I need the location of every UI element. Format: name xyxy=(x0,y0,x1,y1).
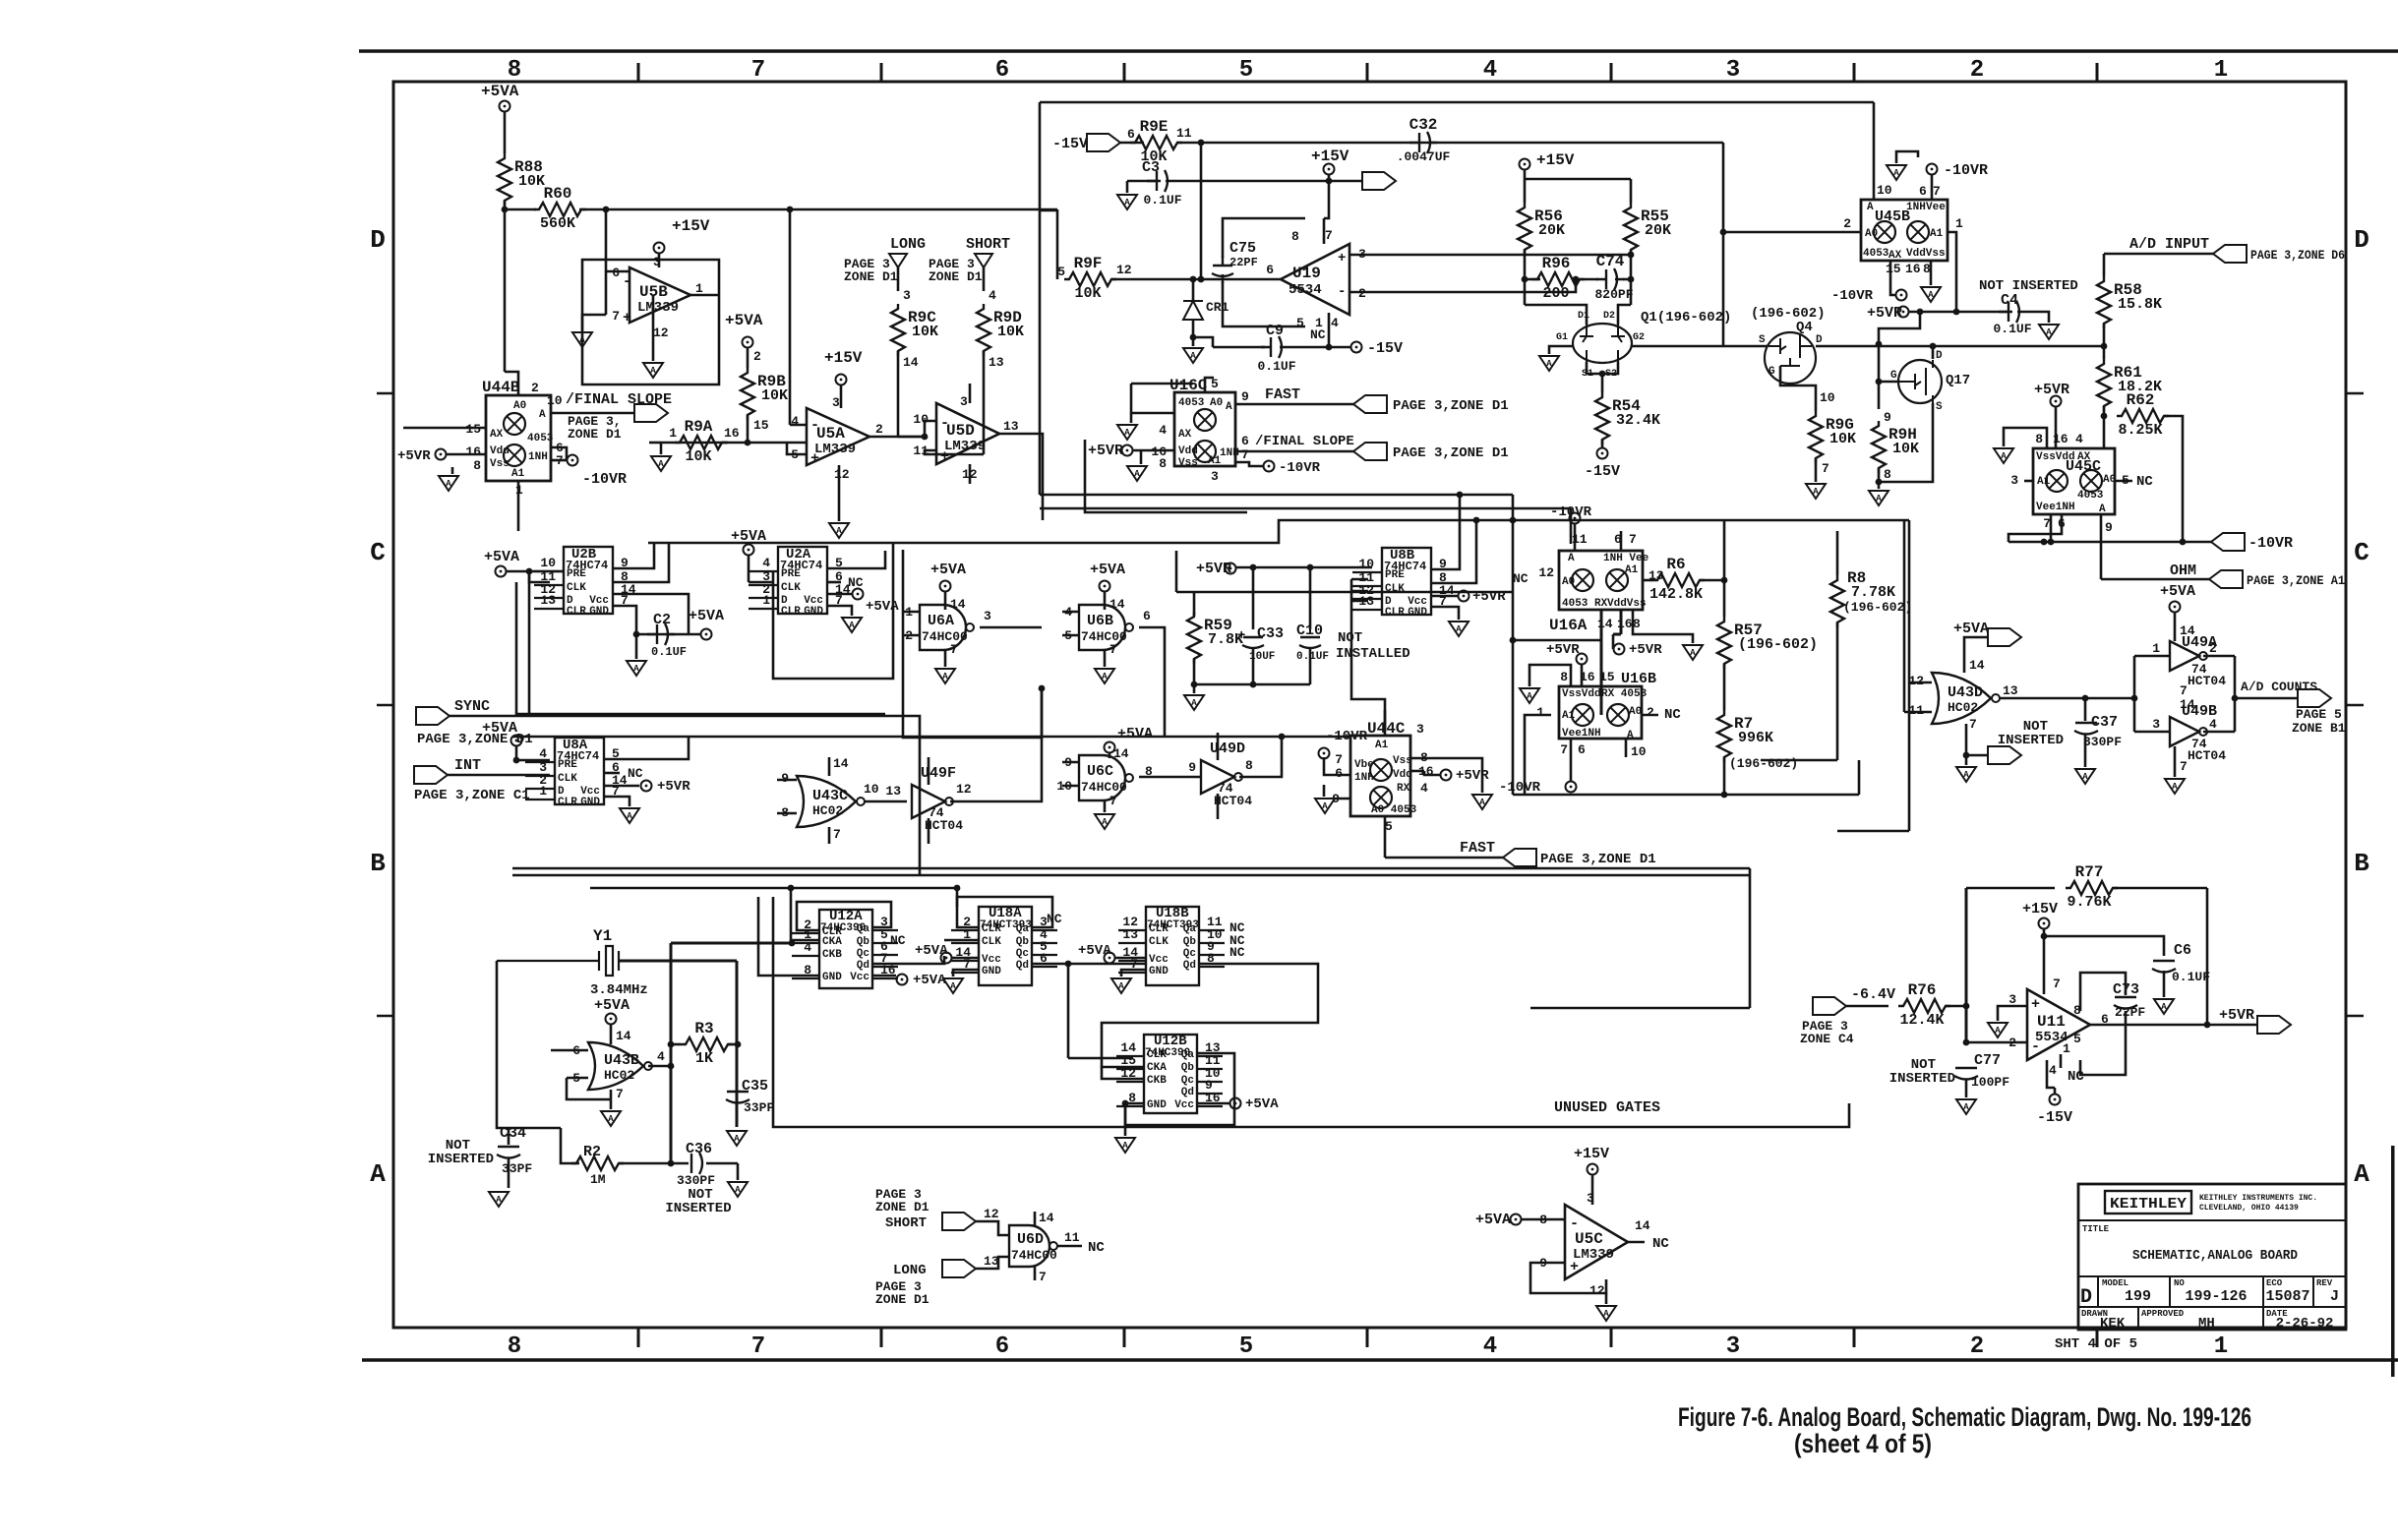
svg-text:HCT04: HCT04 xyxy=(1214,794,1252,808)
wire xyxy=(451,467,454,474)
svg-text:A: A xyxy=(1479,798,1485,807)
wire trunk xyxy=(512,736,1350,739)
junction xyxy=(2101,413,2108,420)
svg-text:CLEVELAND, OHIO 44139: CLEVELAND, OHIO 44139 xyxy=(2199,1204,2299,1213)
terminal +5VA xyxy=(897,975,908,985)
svg-text:U43C: U43C xyxy=(812,788,848,804)
svg-text:3: 3 xyxy=(2152,717,2160,732)
svg-text:4053: 4053 xyxy=(1863,248,1889,260)
wire xyxy=(1410,770,1424,773)
terminal +5VA xyxy=(2170,602,2181,613)
wire in1 xyxy=(903,611,920,614)
wire xyxy=(1836,531,1839,575)
wire xyxy=(605,209,608,271)
svg-text:16: 16 xyxy=(465,444,481,459)
wire xyxy=(2207,1024,2257,1027)
wire top trunk xyxy=(1040,101,1874,104)
wire in10 xyxy=(1062,785,1079,788)
wire xyxy=(671,1043,681,1046)
svg-text:6: 6 xyxy=(1919,184,1927,199)
wire xyxy=(610,1025,613,1044)
wire xyxy=(619,1162,689,1165)
svg-text:12: 12 xyxy=(984,1207,999,1221)
svg-text:CKA: CKA xyxy=(1147,1062,1167,1074)
svg-text:U6A: U6A xyxy=(928,613,954,629)
wire xyxy=(1878,468,1881,489)
svg-text:+5VR: +5VR xyxy=(1546,642,1580,658)
wire xyxy=(1174,180,1362,183)
svg-text:4: 4 xyxy=(539,746,547,761)
wire step xyxy=(1351,579,1385,728)
svg-text:+15V: +15V xyxy=(2022,901,2058,918)
wire xyxy=(670,960,673,963)
connector flag xyxy=(942,1260,976,1277)
svg-text:C74: C74 xyxy=(1596,253,1625,270)
svg-text:9: 9 xyxy=(781,771,789,786)
terminal -10VR xyxy=(1264,461,1275,472)
inverter U49A xyxy=(2170,641,2199,671)
svg-text:100PF: 100PF xyxy=(1971,1075,2009,1090)
svg-text:5: 5 xyxy=(1239,1333,1253,1360)
wire xyxy=(1512,495,1515,640)
svg-text:A0 4053: A0 4053 xyxy=(1371,804,1417,816)
wire xyxy=(1570,508,1573,544)
wire xyxy=(790,888,793,943)
junction xyxy=(502,207,509,213)
svg-text:Vss: Vss xyxy=(1393,755,1412,767)
svg-text:3: 3 xyxy=(1726,1333,1740,1360)
svg-text:KEITHLEY: KEITHLEY xyxy=(2110,1196,2187,1213)
connector flag xyxy=(2213,245,2247,263)
svg-text:R60: R60 xyxy=(544,185,572,203)
resistor R9D xyxy=(977,304,990,356)
cap C77 sym xyxy=(1954,1068,1978,1080)
ground xyxy=(1117,195,1137,209)
svg-text:12: 12 xyxy=(956,782,972,797)
wire Q17 S xyxy=(1879,403,1933,482)
svg-text:+5VA: +5VA xyxy=(1475,1212,1511,1228)
svg-text:10K: 10K xyxy=(1074,285,1101,302)
svg-text:CLR: CLR xyxy=(558,797,577,808)
junction xyxy=(603,207,610,213)
wire xyxy=(1192,320,1195,346)
svg-text:+5VR: +5VR xyxy=(2034,382,2069,398)
svg-text:PAGE 3,ZONE D1: PAGE 3,ZONE D1 xyxy=(1393,398,1509,414)
junction xyxy=(1122,1100,1129,1107)
wire xyxy=(1623,278,1631,281)
terminal +15V xyxy=(2039,918,2050,929)
connector flag xyxy=(1353,443,1387,460)
analog switch U44B xyxy=(486,395,551,481)
svg-text:4: 4 xyxy=(762,556,770,570)
terminal +5VR xyxy=(1577,654,1588,665)
wire xyxy=(976,1221,1009,1235)
terminal +5VR xyxy=(1459,591,1469,602)
wire xyxy=(1930,261,1933,285)
wire p2 xyxy=(1642,714,1658,717)
svg-text:-: - xyxy=(940,415,949,432)
wire fb xyxy=(1530,1263,1606,1293)
svg-text:(196-602): (196-602) xyxy=(1843,600,1912,615)
wire xyxy=(2043,929,2046,994)
wire xyxy=(551,447,567,460)
wire xyxy=(1896,151,1918,163)
svg-text:B: B xyxy=(370,849,386,878)
svg-text:PAGE 3,ZONE D1: PAGE 3,ZONE D1 xyxy=(1540,852,1656,867)
wire gate xyxy=(1879,381,1898,384)
wire xyxy=(1965,1080,1968,1097)
svg-text:9.76K: 9.76K xyxy=(2067,894,2111,911)
svg-text:PRE: PRE xyxy=(567,568,586,580)
terminal +5VR xyxy=(1226,563,1236,574)
svg-text:8: 8 xyxy=(1245,758,1253,773)
wire xyxy=(983,267,986,291)
wire vss xyxy=(1410,758,1482,793)
svg-text:CLK: CLK xyxy=(781,582,801,594)
wire xyxy=(1034,1267,1037,1280)
svg-text:-15V: -15V xyxy=(1367,340,1403,357)
border frame xyxy=(359,49,2398,53)
junction xyxy=(668,1160,675,1167)
svg-text:7: 7 xyxy=(2053,977,2061,991)
svg-text:A: A xyxy=(1603,1309,1609,1319)
ground xyxy=(1539,356,1559,371)
svg-text:C: C xyxy=(2354,538,2369,567)
wire xyxy=(579,208,1057,211)
wire R60 net xyxy=(505,208,536,211)
svg-text:32.4K: 32.4K xyxy=(1616,412,1660,429)
svg-text:6: 6 xyxy=(1578,742,1586,757)
wire p9 xyxy=(1333,798,1350,800)
svg-text:-15V: -15V xyxy=(2037,1109,2072,1126)
ground xyxy=(489,1192,509,1207)
svg-text:7: 7 xyxy=(1241,447,1249,462)
wire xyxy=(952,957,979,960)
svg-text:NO: NO xyxy=(2174,1278,2185,1288)
svg-text:+5VA: +5VA xyxy=(913,973,946,988)
svg-text:GND: GND xyxy=(589,606,609,618)
svg-text:7: 7 xyxy=(2180,759,2188,774)
wire xyxy=(1104,800,1107,812)
svg-text:RX 4053: RX 4053 xyxy=(1601,688,1648,700)
svg-text:A0: A0 xyxy=(1865,228,1878,240)
wire xyxy=(660,443,663,454)
wire xyxy=(898,436,925,439)
svg-text:22PF: 22PF xyxy=(2115,1005,2145,1020)
svg-text:R96: R96 xyxy=(1542,255,1571,272)
wire trunk xyxy=(512,874,1750,877)
connector flag xyxy=(2211,533,2245,551)
svg-text:R77: R77 xyxy=(2075,863,2104,881)
wire q2 xyxy=(613,543,669,582)
wire in1 xyxy=(2134,655,2170,658)
svg-text:A: A xyxy=(446,479,451,489)
svg-text:A: A xyxy=(1893,168,1899,178)
svg-text:74HC00: 74HC00 xyxy=(1081,780,1127,795)
svg-text:1: 1 xyxy=(762,593,770,608)
svg-text:10K: 10K xyxy=(761,387,788,404)
wire xyxy=(2055,407,2058,448)
wire xyxy=(605,271,608,315)
wire xyxy=(636,633,700,636)
wire xyxy=(606,270,629,273)
wire xyxy=(652,295,655,361)
wire xyxy=(2174,746,2177,777)
svg-text:5: 5 xyxy=(1057,265,1065,279)
terminal +5VA xyxy=(941,953,952,964)
svg-text:HCT04: HCT04 xyxy=(2188,674,2226,688)
svg-text:14: 14 xyxy=(1597,617,1613,631)
cap C73 sym xyxy=(2114,997,2137,1009)
svg-text:A: A xyxy=(2354,1159,2369,1189)
svg-text:8: 8 xyxy=(1159,456,1167,471)
svg-text:A: A xyxy=(1867,202,1874,213)
junction xyxy=(2048,539,2055,546)
wire xyxy=(1525,178,1631,181)
svg-text:CLR: CLR xyxy=(982,923,1001,935)
svg-text:4053: 4053 xyxy=(1178,397,1205,409)
svg-text:8: 8 xyxy=(1291,229,1299,244)
wire xyxy=(1700,579,1724,582)
wire xyxy=(747,348,749,368)
svg-text:1NH: 1NH xyxy=(1906,202,1926,213)
svg-text:Qc: Qc xyxy=(1016,948,1029,960)
svg-text:CLK: CLK xyxy=(567,582,586,594)
wire xyxy=(1133,449,1174,452)
junction xyxy=(787,207,794,213)
svg-text:+5VR: +5VR xyxy=(2219,1007,2254,1024)
svg-text:NC: NC xyxy=(1652,1236,1669,1252)
wire out xyxy=(1139,776,1200,779)
svg-text:8: 8 xyxy=(508,57,521,84)
wire q8 xyxy=(1431,520,1476,583)
svg-text:1: 1 xyxy=(2214,1333,2228,1360)
wire xyxy=(1909,311,2012,314)
svg-text:A: A xyxy=(1456,624,1462,634)
wire in3 xyxy=(2134,731,2170,734)
resistor R9G xyxy=(1809,411,1823,463)
junction xyxy=(1510,517,1517,524)
switch element xyxy=(1910,224,1926,240)
svg-text:4: 4 xyxy=(989,288,996,303)
junction xyxy=(1326,178,1333,185)
svg-text:A: A xyxy=(1568,553,1575,564)
wire xyxy=(1056,209,1059,279)
switch element xyxy=(2083,473,2099,489)
wire xyxy=(1524,179,1527,203)
resistor R9C xyxy=(891,304,905,356)
svg-text:APPROVED: APPROVED xyxy=(2141,1309,2185,1319)
svg-text:G2: G2 xyxy=(1633,332,1645,343)
ground xyxy=(1315,799,1335,813)
svg-text:Vee: Vee xyxy=(1926,202,1946,213)
cap C37 sym xyxy=(2074,723,2098,735)
wire cka loop xyxy=(1133,1066,1144,1069)
svg-text:6: 6 xyxy=(1266,263,1274,277)
svg-text:A1: A1 xyxy=(511,468,525,480)
svg-text:3: 3 xyxy=(2010,473,2018,488)
wire xyxy=(2103,406,2106,416)
svg-text:-: - xyxy=(623,273,631,290)
resistor R96 xyxy=(1532,272,1585,286)
counter U12B xyxy=(1144,1035,1197,1113)
wire xyxy=(1236,566,1372,569)
wire xyxy=(1252,567,1255,629)
terminal +5VA xyxy=(701,629,712,640)
wire xyxy=(1581,665,1584,686)
terminal +5VA xyxy=(496,566,507,577)
wire gnd xyxy=(953,970,979,977)
svg-text:NC: NC xyxy=(848,575,864,590)
svg-text:-10VR: -10VR xyxy=(2248,535,2293,552)
svg-text:Qa: Qa xyxy=(1183,923,1197,935)
wire xyxy=(1217,794,1220,819)
wire xyxy=(604,772,620,775)
svg-text:AX: AX xyxy=(490,429,504,441)
svg-text:8: 8 xyxy=(1560,670,1568,684)
svg-text:A: A xyxy=(1124,198,1130,207)
svg-text:7: 7 xyxy=(1822,461,1829,476)
svg-text:A: A xyxy=(496,1195,502,1205)
wire xyxy=(1749,868,1752,1008)
svg-text:CKB: CKB xyxy=(1147,1075,1167,1087)
svg-text:-10VR: -10VR xyxy=(1550,504,1592,520)
wire xyxy=(789,209,792,425)
wire U19 pin4 xyxy=(1328,313,1331,347)
svg-text:7: 7 xyxy=(1560,742,1568,757)
svg-text:HC02: HC02 xyxy=(1948,700,1978,715)
svg-text:A: A xyxy=(2099,503,2106,515)
wire in6 xyxy=(551,1049,588,1052)
wire FAST xyxy=(1235,403,1353,406)
wire xyxy=(728,1043,738,1046)
svg-text:9: 9 xyxy=(1241,389,1249,404)
svg-text:NC: NC xyxy=(1047,912,1062,926)
svg-text:NOT: NOT xyxy=(1338,630,1362,646)
wire xyxy=(1124,1103,1127,1136)
svg-text:Qb: Qb xyxy=(1016,936,1030,948)
svg-text:A0: A0 xyxy=(2103,474,2116,486)
junction xyxy=(735,1041,742,1048)
svg-text:NC: NC xyxy=(1088,1240,1105,1256)
wire trunk xyxy=(648,520,1909,543)
svg-text:A1: A1 xyxy=(1562,710,1576,722)
svg-text:10: 10 xyxy=(1820,390,1835,405)
connector flag xyxy=(1503,849,1536,866)
capacitor C4 xyxy=(1999,301,2026,323)
svg-text:GND: GND xyxy=(982,966,1001,977)
cap C10 sym xyxy=(1299,637,1321,648)
svg-text:C9: C9 xyxy=(1266,323,1284,339)
wire xyxy=(1878,344,1881,382)
wire in9 xyxy=(1062,761,1079,764)
svg-text:13: 13 xyxy=(2003,683,2018,698)
svg-text:SHT 4 OF 5: SHT 4 OF 5 xyxy=(2055,1336,2137,1352)
ground xyxy=(728,1182,748,1197)
junction xyxy=(1279,734,1286,740)
svg-text:SYNC: SYNC xyxy=(454,698,490,715)
wire c6 path xyxy=(2044,936,2164,956)
svg-text:R9A: R9A xyxy=(685,418,713,436)
svg-text:A: A xyxy=(1102,817,1108,827)
svg-text:/FINAL SLOPE: /FINAL SLOPE xyxy=(1255,434,1354,449)
wire xyxy=(1193,684,1196,693)
svg-text:11: 11 xyxy=(1176,126,1192,141)
svg-text:CLR: CLR xyxy=(781,606,801,618)
svg-text:A: A xyxy=(1627,730,1634,741)
svg-text:0.1UF: 0.1UF xyxy=(2172,970,2210,984)
svg-text:6: 6 xyxy=(1143,609,1151,623)
svg-text:D2: D2 xyxy=(1603,311,1615,322)
wire Q4 gate xyxy=(1780,366,1816,391)
wire in2 xyxy=(1062,634,1079,637)
svg-text:74HC00: 74HC00 xyxy=(922,629,968,644)
wire xyxy=(1574,523,1577,551)
terminal -10VR xyxy=(1570,513,1581,524)
wire xyxy=(2054,1088,2057,1094)
svg-text:Qc: Qc xyxy=(1183,948,1196,960)
svg-text:11: 11 xyxy=(1064,1230,1080,1245)
svg-text:15087: 15087 xyxy=(2265,1288,2309,1305)
connector flag INT xyxy=(414,766,448,784)
connector flag LONG xyxy=(889,254,907,267)
wire A out xyxy=(551,412,634,415)
svg-text:PAGE 3,ZONE D1: PAGE 3,ZONE D1 xyxy=(1393,445,1509,461)
switch element xyxy=(1575,707,1590,723)
svg-text:+15V: +15V xyxy=(1536,151,1575,169)
ground xyxy=(1184,695,1204,710)
cap C36 sym xyxy=(691,1153,702,1174)
svg-text:A: A xyxy=(942,672,948,681)
wire out xyxy=(2090,1024,2207,1027)
junction xyxy=(1953,309,1960,316)
svg-text:Vcc: Vcc xyxy=(982,954,1001,966)
svg-text:/FINAL SLOPE: /FINAL SLOPE xyxy=(566,391,672,408)
terminal +5VR xyxy=(1898,307,1909,318)
wire xyxy=(1524,250,1527,279)
wire xyxy=(1723,231,1861,234)
transistor Q17 xyxy=(1898,360,1942,403)
wire xyxy=(1130,384,1133,413)
ground xyxy=(1921,287,1941,302)
svg-text:0.1UF: 0.1UF xyxy=(1296,651,1329,663)
terminal +5VA xyxy=(1105,742,1115,753)
wire top xyxy=(1964,637,1988,673)
wire vcc xyxy=(827,593,852,596)
svg-text:NC: NC xyxy=(628,766,643,781)
svg-text:+5VR: +5VR xyxy=(1456,768,1489,784)
wire xyxy=(582,315,606,330)
wire in11 xyxy=(1904,711,1932,714)
wire pin4 xyxy=(2047,1060,2055,1088)
svg-text:A: A xyxy=(1118,981,1124,991)
wire U5D out xyxy=(999,434,1043,520)
wire in1 xyxy=(1062,611,1079,614)
svg-text:74HC00: 74HC00 xyxy=(1011,1248,1057,1263)
svg-text:A: A xyxy=(1546,359,1552,369)
junction xyxy=(668,1041,675,1048)
svg-text:INSERTED: INSERTED xyxy=(428,1152,494,1167)
svg-text:+: + xyxy=(623,310,631,326)
wire xyxy=(1177,142,1723,145)
svg-text:U16B: U16B xyxy=(1621,671,1656,687)
NAND gate U6C xyxy=(1079,755,1125,800)
svg-text:INSERTED: INSERTED xyxy=(1889,1071,1955,1087)
svg-text:7: 7 xyxy=(1325,228,1333,243)
capacitor C32 xyxy=(1409,132,1437,153)
svg-text:Qd: Qd xyxy=(1183,960,1196,972)
wire xyxy=(1522,1218,1565,1221)
